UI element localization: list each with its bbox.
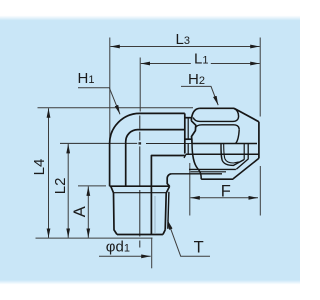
dimension line phi-d1 <box>99 255 151 257</box>
centerline vertical axis <box>139 116 141 248</box>
thread bottom right chamfer <box>163 230 165 235</box>
extension line F left <box>189 163 191 216</box>
dimension line L3 <box>110 46 259 48</box>
nut mid flat top curve <box>195 125 239 130</box>
thread start line <box>114 192 168 194</box>
skirt line y174 <box>172 173 222 175</box>
elbow outer contour <box>110 113 185 186</box>
thread crest line <box>168 192 169 229</box>
dimension line F <box>190 197 258 199</box>
thread left chamfer <box>111 186 114 193</box>
thread right flank <box>165 186 169 230</box>
socket shoulder bottom <box>185 138 191 140</box>
extension line A <box>78 185 106 187</box>
nut lower-left curve <box>192 144 201 180</box>
body end face <box>184 113 186 153</box>
dimension line L2 <box>67 144 69 238</box>
nut top-left corner <box>191 108 199 121</box>
nut top flat bottom curve <box>193 117 238 122</box>
nut top flat right arc <box>234 108 239 116</box>
bowl arc inner <box>224 144 239 164</box>
end face bottom chamfer <box>184 154 186 158</box>
body end face inner line <box>187 118 189 140</box>
centerline horizontal (L2 extension) <box>60 142 137 144</box>
svg-text:A: A <box>71 206 89 217</box>
nut bottom edge <box>201 178 233 180</box>
nut waist edge <box>192 143 257 145</box>
nut mid flat right arc <box>236 130 240 144</box>
extension line L4 top <box>38 107 194 109</box>
dimension line A <box>87 186 89 237</box>
nut cone chamfer <box>234 108 259 121</box>
nut right face <box>258 122 260 159</box>
under-nut line y172 <box>191 171 227 173</box>
leader H1 <box>78 88 120 115</box>
skirt step to flange <box>167 174 172 187</box>
leader T <box>168 220 210 256</box>
body step corner <box>151 156 184 235</box>
leader H2 <box>181 86 218 105</box>
extension line L1 left <box>139 58 141 112</box>
socket shoulder top <box>185 117 191 119</box>
center dot <box>139 142 142 144</box>
extension line F right <box>259 166 261 216</box>
dimension line L4 <box>48 108 50 238</box>
skirt diagonal <box>233 158 259 179</box>
blue field <box>0 16 300 21</box>
sleeve step vertical 2 and diagonal <box>236 144 248 170</box>
thread inner faint line <box>154 196 156 233</box>
extension line bottom (thread tip) <box>36 237 153 239</box>
svg-text:F: F <box>221 182 231 200</box>
sleeve step vertical 1 <box>243 144 245 160</box>
flange bottom edge <box>110 185 170 187</box>
end face inner line lower segment <box>187 144 189 155</box>
bowl arc outer <box>221 144 244 166</box>
centerline horizontal right segment <box>146 143 192 145</box>
thread left flank <box>114 193 118 235</box>
nut top edge <box>200 107 234 109</box>
sleeve line y154 <box>186 153 259 155</box>
under-nut line y169 <box>189 168 236 170</box>
elbow inner contour <box>126 130 185 187</box>
dimension line L1 <box>141 63 191 65</box>
svg-text:L2: L2 <box>52 178 69 195</box>
thread bottom edge <box>117 234 163 236</box>
svg-text:L4: L4 <box>31 159 48 176</box>
extension line phi-d1 <box>151 238 153 269</box>
extension line L3 left <box>109 38 111 142</box>
nut left corner dimple <box>191 121 196 144</box>
extension line right (L3/L1) <box>259 38 261 117</box>
svg-text:T: T <box>194 238 204 256</box>
